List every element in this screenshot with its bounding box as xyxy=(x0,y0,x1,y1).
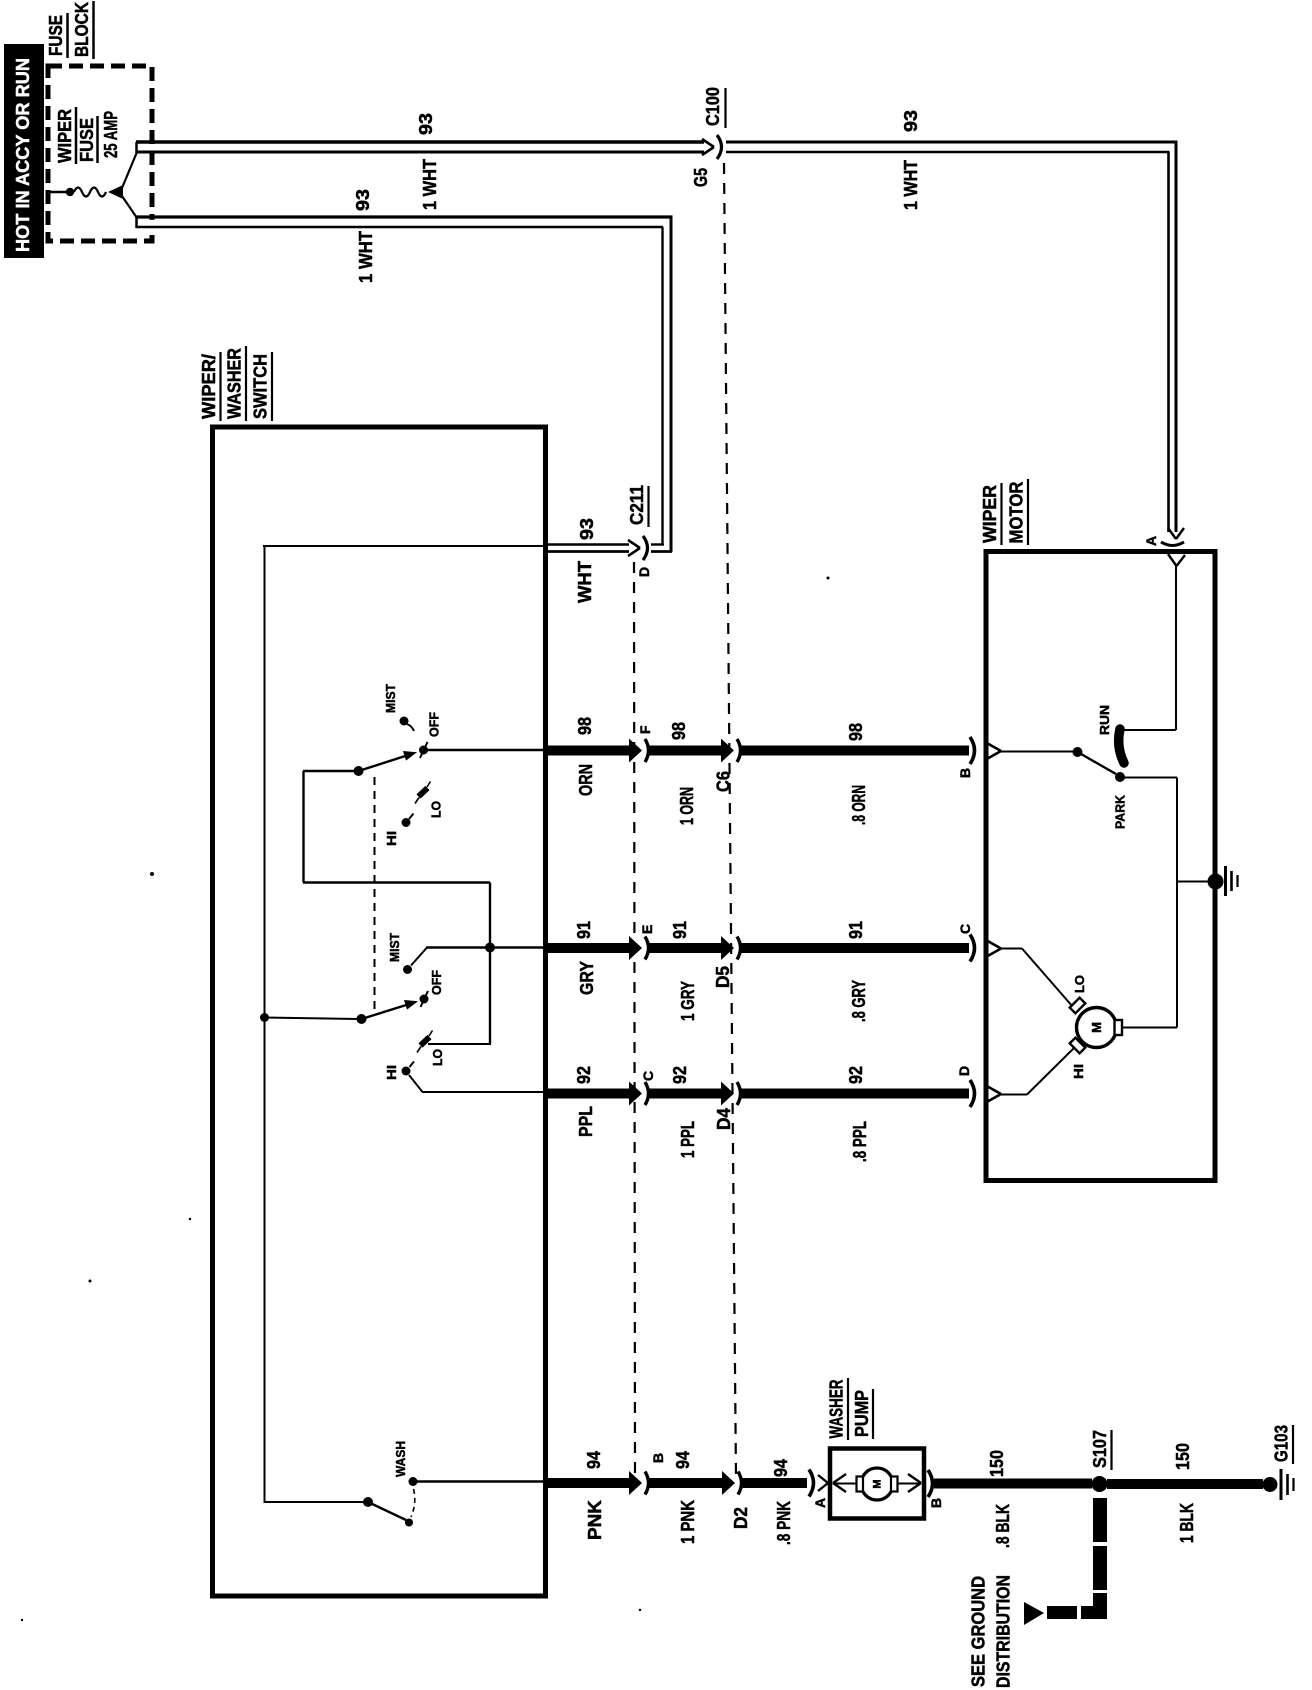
wash contact xyxy=(409,1477,418,1486)
svg-text:HI: HI xyxy=(384,1065,399,1080)
washer pump title xyxy=(827,1378,874,1440)
PARK contact xyxy=(1115,772,1125,782)
svg-text:.8 BLK: .8 BLK xyxy=(993,1504,1013,1548)
junction dot GRY node xyxy=(485,943,495,953)
wire OFF to ORN bus xyxy=(427,749,546,751)
wire LO to GRY node vertical xyxy=(428,1043,491,1045)
svg-text:MOTOR: MOTOR xyxy=(1007,482,1027,544)
wire 1 BLK 150 xyxy=(1107,1479,1263,1489)
svg-text:LO: LO xyxy=(429,801,444,818)
pump motor M2 xyxy=(857,1468,898,1500)
svg-text:PNK: PNK xyxy=(585,1500,605,1540)
splice S107 xyxy=(1092,1476,1108,1492)
wire 93 1WHT from fuse to C100 (wire A) xyxy=(136,142,704,153)
svg-text:RUN: RUN xyxy=(1097,705,1112,735)
fuse block dashed box xyxy=(48,66,152,241)
wire HI to PPL bus xyxy=(409,1075,546,1092)
svg-text:.8 ORN: .8 ORN xyxy=(849,785,869,825)
svg-text:1 BLK: 1 BLK xyxy=(1177,1503,1197,1543)
svg-text:93: 93 xyxy=(577,518,597,540)
svg-text:.8 PPL: .8 PPL xyxy=(850,1121,870,1162)
svg-text:.8 PNK: .8 PNK xyxy=(774,1501,794,1545)
ground symbol G103 xyxy=(1281,1469,1294,1500)
connector at motor A xyxy=(1161,528,1184,546)
arrow at pump B xyxy=(908,1474,921,1492)
wiper/washer switch title xyxy=(199,346,272,421)
svg-text:150: 150 xyxy=(987,1450,1007,1477)
svg-text:M: M xyxy=(1089,1022,1104,1033)
svg-text:WASH: WASH xyxy=(393,1441,408,1477)
label G103 xyxy=(1272,1425,1294,1464)
svg-text:94: 94 xyxy=(771,1459,791,1477)
wash switch arm xyxy=(368,1502,413,1527)
junction node feed to mode switch xyxy=(260,1013,269,1022)
see ground distribution dashed pointer xyxy=(1024,1498,1107,1625)
white gap at border crossing xyxy=(145,145,156,151)
wire GRY node to bus xyxy=(426,946,546,948)
svg-text:G5: G5 xyxy=(691,168,711,187)
svg-text:B: B xyxy=(928,1498,944,1508)
svg-text:WIPER: WIPER xyxy=(55,109,75,163)
svg-text:92: 92 xyxy=(846,1066,866,1084)
label S107 xyxy=(1090,1430,1112,1470)
svg-text:D2: D2 xyxy=(731,1507,751,1529)
fuse block label xyxy=(46,1,94,59)
wash switch pivot xyxy=(363,1497,373,1507)
washer pump box xyxy=(830,1449,924,1519)
wire .8 BLK 150 xyxy=(928,1470,1092,1497)
wire WHT feed inside switch xyxy=(263,545,546,1503)
svg-text:PUMP: PUMP xyxy=(852,1390,872,1437)
svg-text:150: 150 xyxy=(1173,1443,1193,1470)
label SEE GROUND DISTRIBUTION xyxy=(969,1575,1014,1688)
lower switch arm with arrow xyxy=(362,1000,419,1019)
wire 93 WHT from switch to C211 xyxy=(546,545,629,552)
wiper/washer switch box xyxy=(213,427,546,1596)
wire A right of C100 to corner and down to motor A xyxy=(726,142,1178,532)
svg-text:SEE GROUND: SEE GROUND xyxy=(969,1576,989,1687)
svg-text:PPL: PPL xyxy=(576,1106,596,1137)
svg-text:FUSE: FUSE xyxy=(77,118,97,162)
lower switch OFF contact xyxy=(420,991,429,1007)
upper switch pivot xyxy=(354,766,364,776)
wire motor to ground line xyxy=(1122,1027,1177,1029)
svg-text:DISTRIBUTION: DISTRIBUTION xyxy=(994,1575,1014,1688)
connector C211 symbol at D xyxy=(628,536,648,560)
park switch arm xyxy=(1078,752,1117,774)
wire B terminal to pivot xyxy=(1001,751,1077,753)
arrow at pump A xyxy=(818,1474,846,1492)
lower switch LO contact xyxy=(417,1031,433,1053)
svg-text:91: 91 xyxy=(846,921,866,939)
svg-text:91: 91 xyxy=(670,921,690,939)
svg-text:OFF: OFF xyxy=(429,970,444,995)
wire 91 GRY bus xyxy=(546,935,1001,962)
svg-text:1 ORN: 1 ORN xyxy=(677,787,697,825)
svg-text:98: 98 xyxy=(846,723,866,741)
svg-text:WASHER: WASHER xyxy=(225,348,245,419)
wire C to motor LO brush xyxy=(1001,949,1073,1008)
svg-text:1 WHT: 1 WHT xyxy=(901,160,921,210)
svg-text:MIST: MIST xyxy=(383,684,398,713)
svg-text:SWITCH: SWITCH xyxy=(251,354,271,419)
wash travel dashed arc xyxy=(411,1489,415,1517)
svg-text:WASHER: WASHER xyxy=(827,1380,847,1439)
svg-text:B: B xyxy=(650,1453,666,1463)
ground dot on motor case xyxy=(1208,874,1224,890)
wire A to RUN contact xyxy=(1123,566,1176,730)
arrow into motor at A xyxy=(1168,554,1185,566)
svg-text:LO: LO xyxy=(430,1049,445,1066)
dashed line C211 xyxy=(634,562,635,1477)
svg-text:C6: C6 xyxy=(714,771,734,792)
svg-text:B: B xyxy=(957,768,973,778)
svg-text:D5: D5 xyxy=(713,966,733,988)
svg-text:1 PPL: 1 PPL xyxy=(678,1121,698,1158)
svg-text:D: D xyxy=(956,1066,972,1076)
svg-text:92: 92 xyxy=(574,1066,594,1084)
wire PARK to ground node xyxy=(1124,778,1209,1028)
svg-text:A: A xyxy=(812,1498,828,1508)
speckle marks xyxy=(21,577,830,1622)
svg-text:GRY: GRY xyxy=(577,961,597,995)
wire 93 1WHT lower from fuse (wire B) xyxy=(136,216,673,552)
wire upper pivot to GRY node xyxy=(303,771,490,1044)
lower switch MIST contact xyxy=(403,948,427,975)
park switch pivot xyxy=(1073,747,1083,757)
svg-text:WIPER/: WIPER/ xyxy=(199,354,219,419)
svg-text:C: C xyxy=(640,1071,656,1081)
svg-text:94: 94 xyxy=(673,1451,693,1469)
svg-text:BLOCK: BLOCK xyxy=(72,2,92,57)
wiper fuse label 25 AMP xyxy=(55,107,121,164)
svg-text:98: 98 xyxy=(575,717,595,735)
svg-text:93: 93 xyxy=(416,113,436,135)
wiper motor box xyxy=(986,552,1215,1181)
mechanical link dashed xyxy=(374,777,376,1013)
wire D to motor HI brush xyxy=(1001,1048,1074,1095)
wire wash to PNK bus xyxy=(417,1480,546,1482)
dashed line C100 xyxy=(724,163,736,1478)
svg-text:HI: HI xyxy=(384,831,399,846)
svg-text:E: E xyxy=(639,925,655,934)
upper switch arm with arrow xyxy=(359,751,418,771)
wire 92 PPL bus xyxy=(546,1080,1001,1107)
svg-text:C: C xyxy=(957,924,973,934)
svg-text:1 PNK: 1 PNK xyxy=(678,1500,698,1544)
svg-text:FUSE: FUSE xyxy=(46,15,66,56)
svg-text:WHT: WHT xyxy=(575,561,595,603)
lower switch pivot xyxy=(357,1014,367,1024)
connector C100 symbol G5 xyxy=(702,135,722,159)
svg-text:1 GRY: 1 GRY xyxy=(678,981,698,1021)
svg-text:F: F xyxy=(637,725,653,734)
upper switch LO contact xyxy=(415,782,431,804)
label C211 xyxy=(627,485,649,527)
svg-text:M: M xyxy=(872,1479,884,1488)
hot in accy or run banner xyxy=(4,44,44,258)
upper switch MIST contact xyxy=(400,717,415,732)
svg-text:LO: LO xyxy=(1072,975,1087,993)
fuse F1 symbol xyxy=(50,152,137,218)
wiper motor title xyxy=(980,479,1028,545)
lower switch HI contact xyxy=(402,1062,415,1076)
svg-text:.8 GRY: .8 GRY xyxy=(849,980,869,1022)
svg-text:D4: D4 xyxy=(714,1108,734,1130)
pump internal wires xyxy=(834,1483,920,1485)
svg-text:G103: G103 xyxy=(1272,1425,1292,1462)
svg-text:1 WHT: 1 WHT xyxy=(420,159,440,210)
motor M1 circle xyxy=(1070,998,1122,1054)
wire 98 ORN bus xyxy=(546,737,1001,764)
svg-text:ORN: ORN xyxy=(576,764,596,796)
svg-text:D: D xyxy=(636,567,652,577)
svg-text:HI: HI xyxy=(1071,1064,1086,1079)
svg-text:HOT IN ACCY OR RUN: HOT IN ACCY OR RUN xyxy=(13,58,33,252)
svg-text:C100: C100 xyxy=(703,87,723,126)
wire feed branch to lower pivot xyxy=(264,1018,358,1020)
svg-text:93: 93 xyxy=(901,110,921,132)
svg-text:A: A xyxy=(1143,536,1159,546)
upper switch HI contact xyxy=(402,814,414,828)
wire 94 PNK bus xyxy=(546,1470,814,1497)
wash switch feed wire xyxy=(264,1501,365,1503)
svg-text:25 AMP: 25 AMP xyxy=(101,111,121,158)
svg-text:OFF: OFF xyxy=(427,712,442,737)
RUN contact crescent xyxy=(1119,729,1124,763)
svg-text:98: 98 xyxy=(669,722,689,740)
svg-text:S107: S107 xyxy=(1090,1430,1110,1468)
ground G103 dot xyxy=(1263,1477,1278,1492)
svg-text:MIST: MIST xyxy=(387,933,402,962)
ground symbol motor xyxy=(1226,866,1238,896)
label C100 xyxy=(703,87,726,128)
svg-text:1 WHT: 1 WHT xyxy=(356,231,376,283)
svg-text:94: 94 xyxy=(584,1451,604,1469)
svg-text:PARK: PARK xyxy=(1113,794,1128,829)
svg-text:C211: C211 xyxy=(627,485,647,525)
svg-text:92: 92 xyxy=(670,1066,690,1084)
svg-text:91: 91 xyxy=(574,921,594,939)
svg-text:WIPER: WIPER xyxy=(980,485,1000,543)
svg-text:93: 93 xyxy=(353,189,373,211)
upper switch OFF contact xyxy=(419,742,428,758)
